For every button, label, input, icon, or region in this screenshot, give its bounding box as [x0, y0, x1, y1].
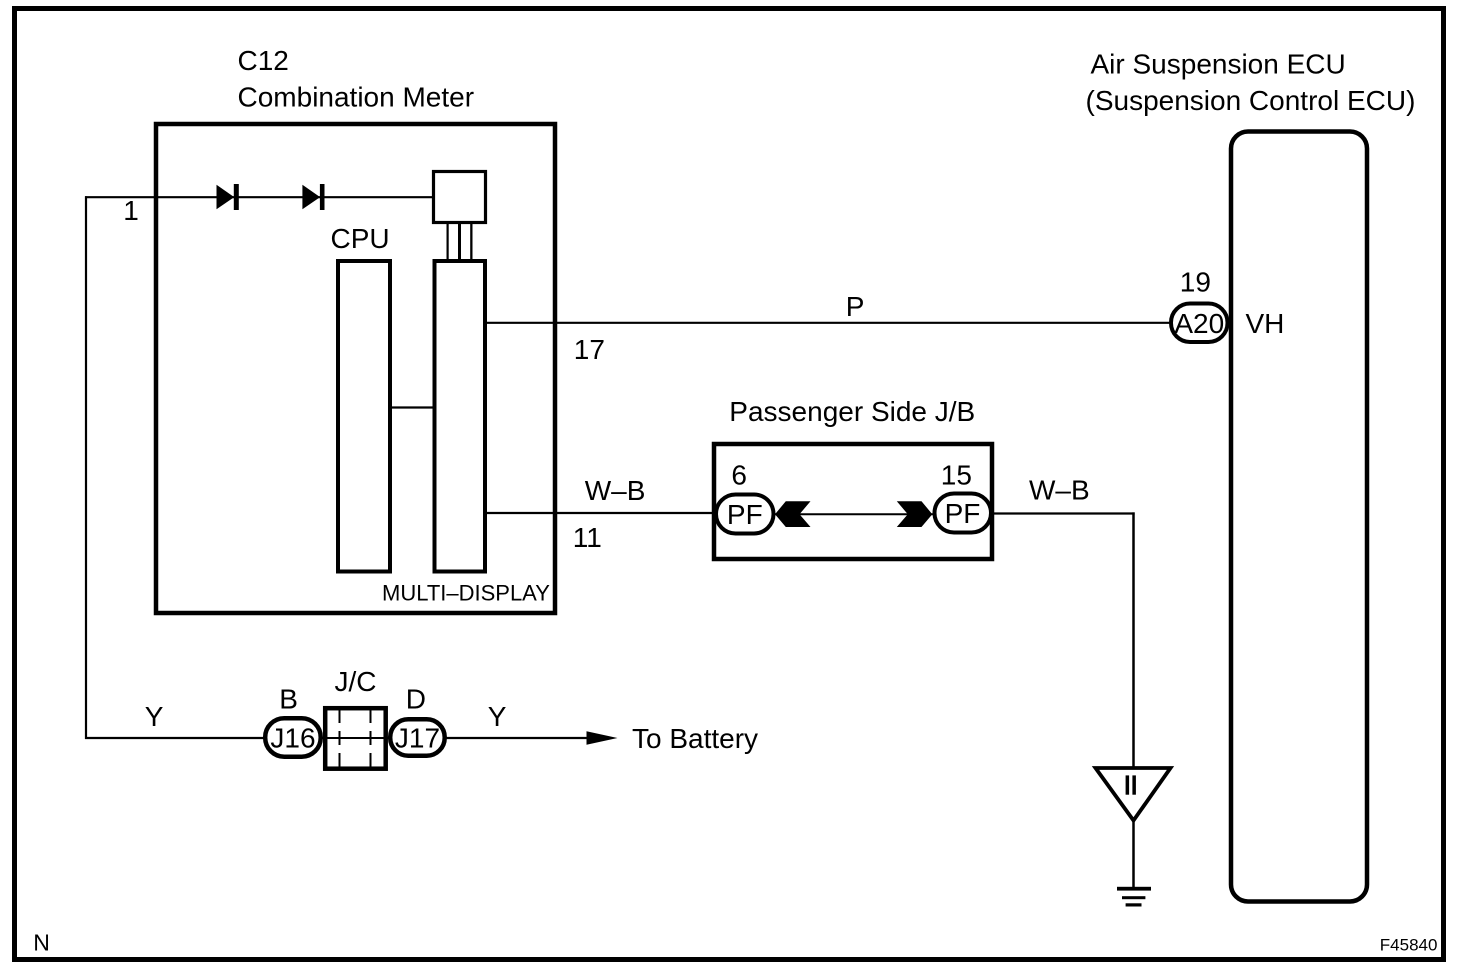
svg-text:(Suspension Control ECU): (Suspension Control ECU) — [1086, 85, 1416, 116]
svg-text:J16: J16 — [270, 723, 315, 754]
svg-text:17: 17 — [574, 334, 605, 365]
svg-text:A20: A20 — [1174, 308, 1224, 339]
svg-text:N: N — [33, 930, 50, 956]
svg-text:J/C: J/C — [335, 666, 377, 697]
svg-text:11: 11 — [573, 522, 602, 553]
svg-text:W–B: W–B — [585, 475, 646, 506]
svg-text:Air Suspension ECU: Air Suspension ECU — [1091, 49, 1346, 80]
svg-text:W–B: W–B — [1029, 475, 1090, 506]
svg-text:C12: C12 — [238, 45, 289, 76]
svg-text:19: 19 — [1180, 267, 1211, 298]
svg-text:PF: PF — [945, 498, 981, 529]
svg-text:F45840: F45840 — [1380, 936, 1438, 955]
svg-text:1: 1 — [123, 195, 139, 226]
svg-text:Y: Y — [145, 701, 164, 732]
svg-text:D: D — [406, 684, 426, 715]
svg-text:PF: PF — [727, 499, 763, 530]
svg-text:CPU: CPU — [331, 223, 390, 254]
svg-text:6: 6 — [731, 459, 747, 490]
svg-text:VH: VH — [1246, 308, 1285, 339]
svg-text:Combination Meter: Combination Meter — [238, 82, 475, 113]
svg-text:15: 15 — [941, 460, 972, 491]
svg-text:To Battery: To Battery — [632, 723, 758, 754]
svg-text:J17: J17 — [395, 723, 440, 754]
svg-text:P: P — [846, 291, 865, 322]
svg-text:Passenger Side J/B: Passenger Side J/B — [729, 396, 975, 427]
svg-text:B: B — [279, 684, 298, 715]
svg-text:MULTI–DISPLAY: MULTI–DISPLAY — [382, 581, 550, 606]
svg-text:Y: Y — [488, 701, 507, 732]
